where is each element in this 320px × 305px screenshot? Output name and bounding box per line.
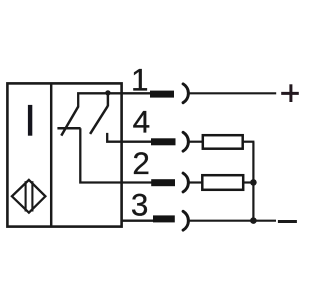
node C junction dot bus to minus wire <box>250 217 257 224</box>
connector socket arc pin 3 <box>183 211 188 230</box>
NC fixed contact bar <box>57 127 80 130</box>
wire pin 2 to load resistor R2 <box>188 181 202 183</box>
svg-text:1: 1 <box>131 62 149 98</box>
wire pin 3 to minus terminal <box>188 220 276 222</box>
pin 4 connector blade <box>151 138 176 145</box>
wire from +V rail to switch pivots <box>78 93 150 107</box>
wire resistor R1 to minus bus <box>243 141 255 143</box>
wire NC contact to pin 2 <box>80 128 151 182</box>
diamond inner left bar <box>25 181 27 211</box>
sensor symbol compartment divider <box>50 83 52 226</box>
pin 3 connector blade <box>153 215 175 222</box>
wire resistor R2 to minus bus <box>243 181 253 183</box>
svg-text:4: 4 <box>133 104 151 140</box>
node B junction dot R2 to bus <box>250 179 257 186</box>
connector socket arc pin 1 <box>183 84 188 103</box>
pin 2 connector blade <box>151 179 175 186</box>
diamond inner right bar <box>31 181 33 211</box>
connector socket arc pin 4 <box>183 132 188 151</box>
wire pin 4 to load resistor R1 <box>188 141 203 143</box>
pin 1 connector blade <box>150 91 174 98</box>
plus terminal symbol <box>281 84 299 102</box>
NO fixed contact stub to pin 4 <box>107 133 151 142</box>
sensor body outline <box>7 83 121 226</box>
proximity sensor diamond symbol <box>12 180 46 213</box>
connector socket arc pin 2 <box>183 173 188 192</box>
svg-text:2: 2 <box>132 145 150 181</box>
wire pin 1 to plus terminal <box>188 92 276 94</box>
switch arm K2 (NO contact, open) <box>90 106 108 134</box>
switch arm K1 (NC contact, closed) <box>61 107 78 136</box>
minus terminal symbol <box>278 220 297 223</box>
wire stub from node A to switch arm K2 <box>107 93 109 106</box>
load resistor R2 <box>202 175 243 190</box>
svg-text:3: 3 <box>131 187 149 223</box>
wire pin 3 from sensor body <box>122 219 154 221</box>
node A junction dot on +V wire <box>105 90 110 95</box>
load resistor R1 <box>203 135 243 149</box>
minus bus vertical wire <box>252 142 254 221</box>
inductive sensing element bar I <box>28 105 32 136</box>
